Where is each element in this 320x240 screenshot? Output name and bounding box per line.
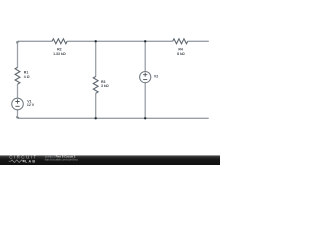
resistor R3 [93,77,98,94]
node junction dot bottom V2 [144,117,146,119]
wire R4 to right end [188,40,209,42]
corner bottom-left [17,116,19,118]
svg-text:http://circuitlab.com/c/pre5mq: http://circuitlab.com/c/pre5mq [45,158,78,161]
V1 minus sign [15,105,19,107]
wire R1 to V1 [17,84,19,98]
V2 plus sign [143,73,147,77]
svg-text:4 Ω: 4 Ω [24,75,30,79]
voltage source V2 [140,72,151,83]
svg-text:12 V: 12 V [27,103,35,107]
wire left vertical to R1 [17,41,19,67]
svg-text:1.33 kΩ: 1.33 kΩ [53,52,66,56]
wire V1 to bottom [17,110,19,119]
svg-text:LAB: LAB [25,159,36,163]
resistor R4 [173,39,188,44]
wire V2 to bottom [144,83,146,119]
CircuitLab logo resistor squiggle [9,160,25,163]
node junction dot top R3 [95,40,97,42]
node junction dot top V2 [144,40,146,42]
V1 plus sign [15,99,19,103]
resistor R2 [52,39,67,44]
wire R2 to R4 [67,40,173,42]
corner top-left [17,42,19,44]
wire R3 to bottom [95,93,97,118]
CircuitLab logo arrow mark [23,160,25,162]
svg-text:V2: V2 [154,75,158,79]
wire R3 branch top [95,41,97,76]
V2 minus sign [143,79,147,81]
svg-text:R1: R1 [24,71,29,75]
svg-text:R2: R2 [57,47,62,51]
voltage source V1 [12,98,24,110]
node junction dot bottom R3 [95,117,97,119]
svg-text:3 kΩ: 3 kΩ [101,84,109,88]
wire top-left lead to R2 [18,40,53,42]
wire V2 branch top [144,41,146,71]
resistor R1 [15,67,20,84]
svg-text:8 kΩ: 8 kΩ [177,52,185,56]
svg-text:R4: R4 [178,47,183,51]
bottom wire [18,117,209,119]
